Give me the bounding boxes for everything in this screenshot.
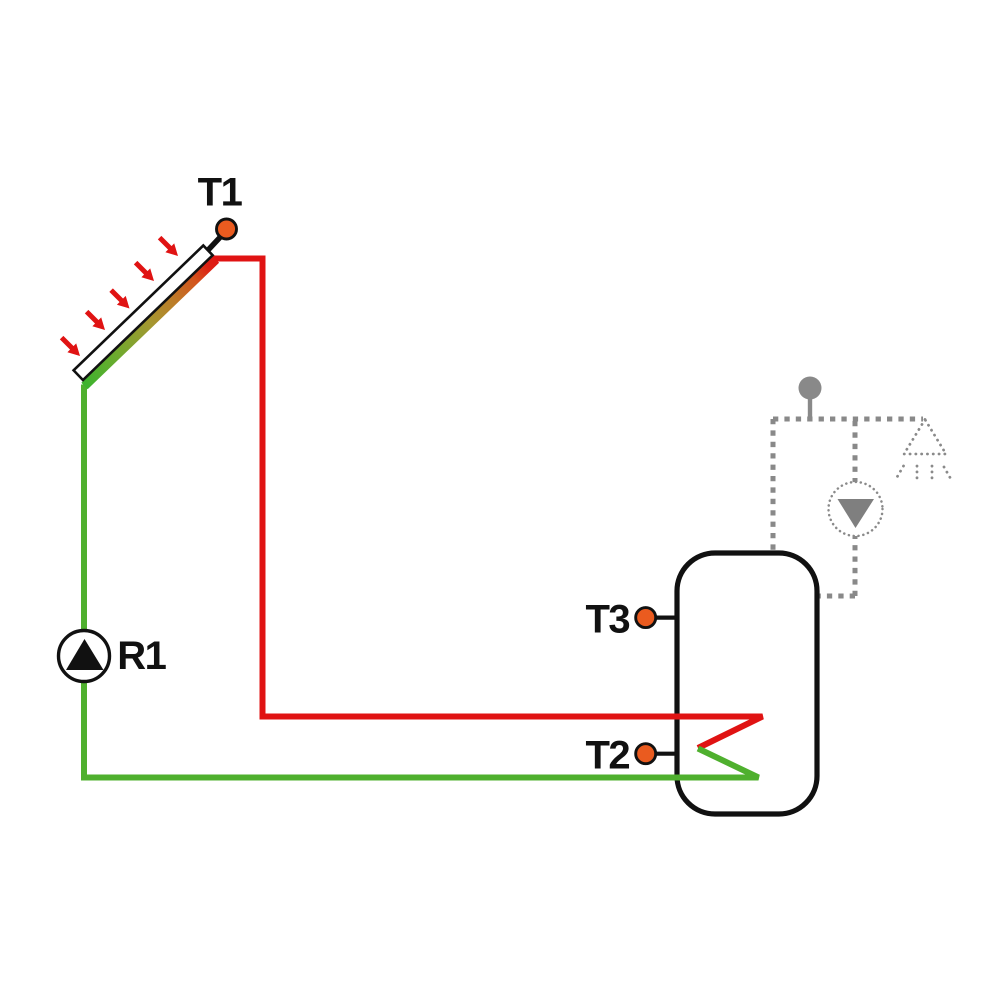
svg-text:T1: T1 — [198, 171, 243, 215]
svg-text:T2: T2 — [586, 734, 630, 778]
svg-text:R1: R1 — [117, 634, 166, 678]
svg-text:T3: T3 — [586, 598, 630, 642]
